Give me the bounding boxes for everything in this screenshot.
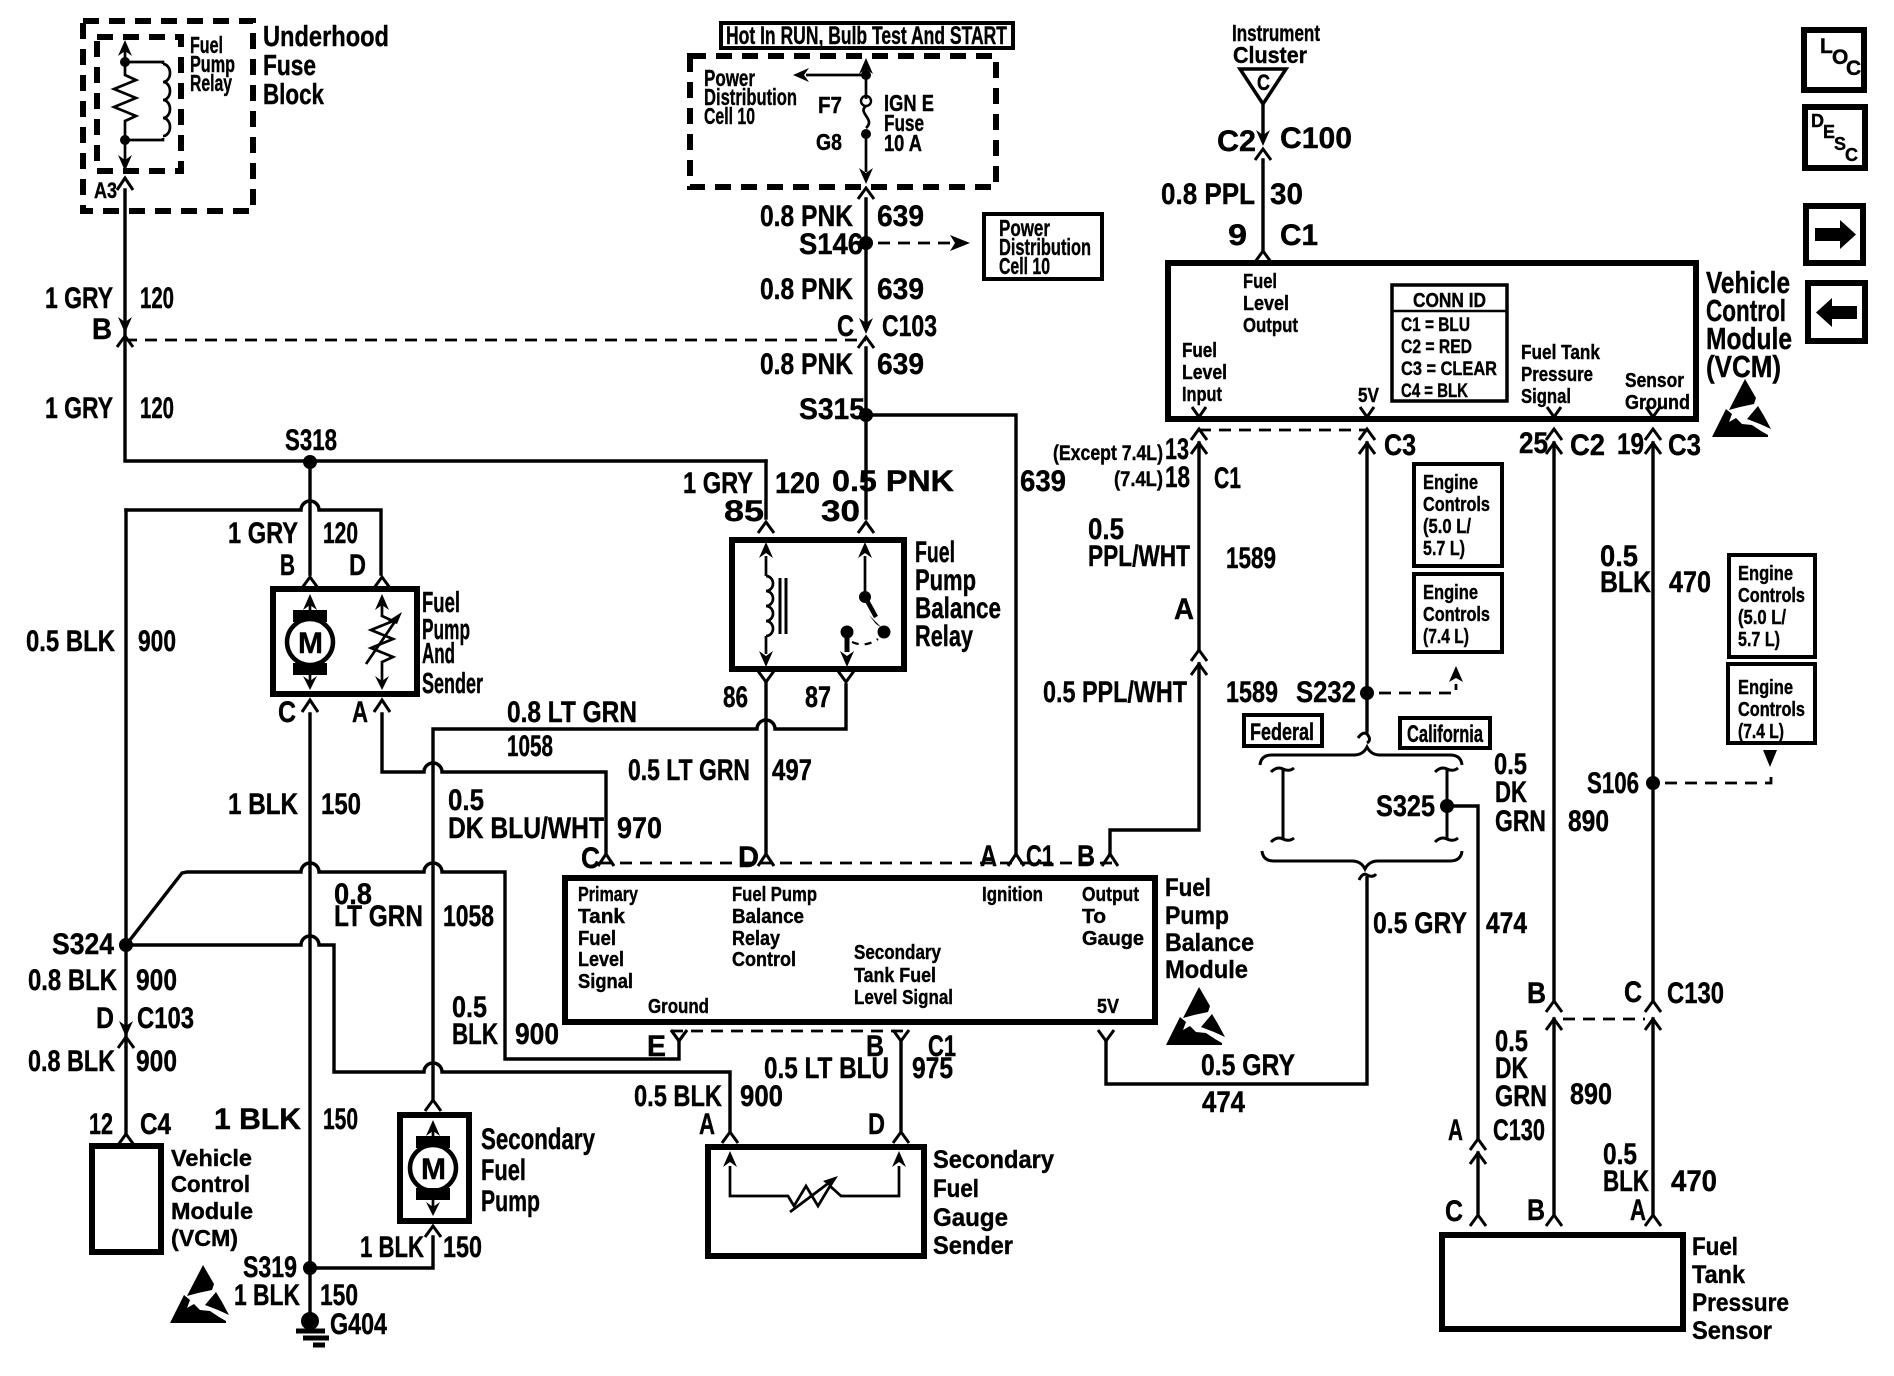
svg-text:474: 474: [1486, 907, 1527, 940]
svg-text:0.8 LT GRN: 0.8 LT GRN: [507, 696, 637, 729]
svg-text:M: M: [298, 627, 323, 660]
module bottom connector C1 dashed line: [671, 1030, 909, 1033]
svg-text:C3 = CLEAR: C3 = CLEAR: [1401, 359, 1497, 380]
wire module B to secondary sender D (0.5 LT BLU 975): [899, 1041, 902, 1130]
svg-text:Underhood: Underhood: [263, 21, 389, 53]
svg-text:Fuel: Fuel: [1692, 1233, 1738, 1261]
VCM pin chevrons below box (25/C2): [1546, 429, 1562, 454]
wire S318 down to fuel pump B pin: [308, 462, 311, 574]
svg-text:Cluster: Cluster: [1233, 42, 1307, 68]
svg-text:Fuel: Fuel: [1165, 874, 1211, 902]
svg-text:0.5 GRY: 0.5 GRY: [1373, 907, 1467, 940]
VCM pin chevrons below box (19/C3): [1645, 429, 1661, 454]
svg-text:1 BLK: 1 BLK: [214, 1103, 301, 1136]
svg-text:5.7 L): 5.7 L): [1423, 538, 1465, 560]
VCM bottom connector dashed line: [1199, 429, 1367, 432]
wire to VCM: [124, 1048, 127, 1133]
svg-text:C2 = RED: C2 = RED: [1401, 337, 1472, 358]
node S319: [303, 1261, 317, 1275]
svg-text:Engine: Engine: [1738, 677, 1793, 699]
svg-text:C: C: [1624, 976, 1642, 1009]
svg-text:Sender: Sender: [933, 1232, 1013, 1260]
svg-text:A: A: [699, 1108, 715, 1141]
instrument cluster triangle connector: [1240, 69, 1286, 104]
node S318: [303, 455, 317, 469]
fuel tank pressure sensor box: [1442, 1235, 1683, 1329]
svg-text:G404: G404: [330, 1308, 387, 1341]
vehicle control module box (bottom-left): [92, 1146, 161, 1252]
svg-text:150: 150: [321, 788, 361, 821]
VCM entry chevron: [1255, 251, 1271, 262]
svg-text:To: To: [1082, 906, 1106, 928]
wire relay bottom with down arrow: [124, 140, 127, 160]
svg-text:C103: C103: [137, 1002, 194, 1035]
svg-text:87: 87: [805, 681, 831, 714]
svg-text:Cell 10: Cell 10: [999, 253, 1050, 279]
svg-text:D: D: [96, 1002, 114, 1035]
svg-text:900: 900: [138, 625, 176, 658]
svg-text:1589: 1589: [1226, 676, 1278, 709]
svg-text:Gauge: Gauge: [1082, 928, 1144, 950]
module pin A chevron: [1008, 854, 1024, 866]
VCM pin chevrons below box (C3): [1359, 429, 1375, 454]
svg-text:975: 975: [912, 1052, 953, 1085]
svg-text:Control: Control: [171, 1171, 250, 1197]
sender internal resistor with arrow: [730, 1166, 899, 1206]
svg-text:Fuel Pump: Fuel Pump: [732, 884, 817, 906]
svg-text:Tank: Tank: [578, 906, 626, 928]
svg-text:C1 = BLU: C1 = BLU: [1401, 315, 1470, 336]
svg-text:639: 639: [877, 348, 924, 381]
connector chevron below fuse block: [858, 188, 874, 199]
wire VCM C3 down to S232: [1365, 443, 1368, 730]
svg-text:1 BLK: 1 BLK: [360, 1231, 424, 1264]
node fuse top: [861, 70, 871, 80]
svg-text:Level: Level: [1182, 362, 1227, 384]
sender variable resistor: [371, 604, 393, 682]
svg-text:Relay: Relay: [915, 620, 973, 653]
svg-text:890: 890: [1570, 1078, 1612, 1111]
svg-text:1 BLK: 1 BLK: [228, 788, 298, 821]
svg-text:0.5 BLK: 0.5 BLK: [26, 625, 115, 658]
dashed connector line C103 (left): [125, 339, 866, 342]
svg-text:DK BLU/WHT: DK BLU/WHT: [448, 812, 604, 845]
svg-text:C: C: [1846, 57, 1861, 80]
left arrow branch inside fuse block: [806, 74, 866, 77]
svg-text:C: C: [1845, 145, 1858, 165]
wire A3 down to S318 corner: [125, 190, 766, 461]
connector B arrow and chevron: [118, 317, 132, 333]
wire relay 87 to secondary pump (0.8 LT GRN 1058) hop at x766: [433, 685, 846, 1098]
svg-text:86: 86: [723, 681, 748, 714]
svg-text:Primary: Primary: [578, 884, 639, 906]
svg-text:470: 470: [1669, 566, 1711, 599]
wire VCM C3-19 down (0.5 BLK 470): [1651, 443, 1654, 1001]
svg-text:Balance: Balance: [732, 906, 804, 928]
svg-text:Secondary: Secondary: [481, 1123, 595, 1156]
underhood fuse block (center) dashed outline: [690, 56, 996, 187]
svg-text:Level Signal: Level Signal: [854, 987, 953, 1009]
svg-text:Pump: Pump: [481, 1185, 540, 1218]
svg-text:120: 120: [140, 282, 174, 315]
sensor pin B chevron: [1546, 1215, 1562, 1226]
VCM internal pin ticks: [1192, 407, 1660, 417]
module pin B bottom chevron: [893, 1030, 909, 1041]
svg-text:0.5 GRY: 0.5 GRY: [1201, 1049, 1295, 1082]
svg-text:Fuel: Fuel: [578, 928, 616, 950]
svg-text:(5.0 L/: (5.0 L/: [1423, 516, 1471, 538]
svg-text:890: 890: [1568, 805, 1609, 838]
svg-text:0.8 PNK: 0.8 PNK: [760, 273, 853, 306]
svg-text:Module: Module: [1165, 956, 1248, 984]
svg-text:Vehicle: Vehicle: [171, 1145, 252, 1171]
svg-text:PPL/WHT: PPL/WHT: [1088, 540, 1190, 573]
svg-text:1 GRY: 1 GRY: [45, 392, 113, 425]
svg-text:12: 12: [89, 1108, 113, 1141]
svg-text:B: B: [280, 549, 295, 582]
svg-text:(VCM): (VCM): [171, 1225, 238, 1251]
wire S325 to connector C130 pin A (0.5 GRY 474): [1447, 806, 1478, 1139]
svg-text:Controls: Controls: [1423, 604, 1490, 626]
wire pin A to module pin C (0.5 DK BLU/WHT 970) with hop at x433: [382, 714, 606, 852]
federal jumper I-bar: [1271, 768, 1294, 842]
svg-text:S324: S324: [52, 928, 114, 961]
svg-text:Relay: Relay: [190, 70, 232, 96]
svg-text:Balance: Balance: [1165, 929, 1254, 957]
node S106: [1646, 776, 1660, 790]
svg-text:Sender: Sender: [422, 668, 483, 700]
svg-text:85: 85: [724, 495, 764, 528]
fuel pump balance module box: [565, 878, 1155, 1022]
svg-text:0.8 BLK: 0.8 BLK: [28, 1045, 115, 1078]
wire S324 down to VCM pin 12 C4: [124, 945, 127, 1046]
node S315: [859, 408, 873, 422]
riser hook below underbrace: [1359, 874, 1376, 880]
svg-text:Pressure: Pressure: [1692, 1289, 1789, 1317]
svg-text:B: B: [92, 313, 112, 346]
S232 wire end hook: [1358, 730, 1370, 743]
svg-text:1058: 1058: [507, 730, 553, 763]
svg-text:470: 470: [1671, 1165, 1717, 1198]
underbrace (bottom): [1262, 851, 1462, 869]
relay coil branch: [125, 62, 170, 140]
pin A chevron: [374, 700, 390, 712]
sensor pin C chevron: [1470, 1215, 1486, 1226]
wire 0.5 BLK 900 down to S324: [124, 510, 127, 945]
svg-text:C1: C1: [1214, 462, 1241, 495]
fuel pump relay top feed wire with up arrow: [124, 48, 127, 62]
relay pin 87 chevron: [838, 671, 854, 682]
svg-text:Signal: Signal: [1521, 386, 1571, 408]
connector C100 arrow and chevron: [1256, 130, 1270, 146]
label Federal box: [1244, 715, 1322, 746]
module top connector C1 dashed line: [600, 862, 1116, 865]
svg-text:19: 19: [1617, 428, 1644, 461]
ESD symbol (bottom-left): [170, 1265, 229, 1323]
svg-text:M: M: [421, 1153, 446, 1186]
svg-text:Controls: Controls: [1423, 494, 1490, 516]
wire to VCM top: [1261, 160, 1264, 250]
ground G404 symbol: [301, 1312, 319, 1330]
svg-text:A: A: [980, 840, 997, 873]
svg-text:Cell 10: Cell 10: [704, 103, 755, 129]
svg-text:A: A: [1630, 1194, 1646, 1227]
wire S319 to G404: [308, 1268, 311, 1315]
svg-text:639: 639: [877, 273, 924, 306]
svg-text:C2: C2: [1217, 125, 1256, 158]
svg-text:Signal: Signal: [578, 971, 633, 993]
dashed arrow S232 to engine controls 7.4L: [1379, 684, 1456, 693]
svg-text:120: 120: [323, 517, 358, 550]
svg-text:970: 970: [617, 812, 662, 845]
svg-text:474: 474: [1202, 1086, 1245, 1119]
pin B chevron: [302, 577, 318, 588]
node S232: [1360, 686, 1374, 700]
svg-text:C: C: [581, 842, 600, 875]
svg-text:California: California: [1407, 721, 1483, 748]
svg-text:(5.0 L/: (5.0 L/: [1738, 607, 1786, 629]
inline connector A chevrons: [1191, 650, 1207, 675]
motor M symbol: [309, 600, 312, 622]
svg-text:B: B: [1527, 1194, 1545, 1227]
svg-text:Output: Output: [1243, 315, 1298, 337]
svg-text:Secondary: Secondary: [933, 1146, 1054, 1174]
svg-text:C103: C103: [882, 310, 937, 343]
wire C1-13/18 down (0.5 PPL/WHT 1589): [1197, 443, 1200, 649]
fuel pump relay inner dashed box: [97, 37, 181, 171]
secondary fuel pump box: [400, 1115, 469, 1221]
svg-text:5V: 5V: [1358, 385, 1380, 407]
svg-text:150: 150: [443, 1231, 482, 1264]
svg-text:C2: C2: [1570, 429, 1605, 462]
node S324: [119, 938, 133, 952]
right arrow box: [1806, 206, 1863, 263]
svg-text:A: A: [352, 696, 368, 729]
svg-text:(VCM): (VCM): [1706, 349, 1781, 384]
svg-text:1 GRY: 1 GRY: [45, 282, 113, 315]
svg-text:0.8 PNK: 0.8 PNK: [760, 348, 853, 381]
svg-text:25: 25: [1519, 427, 1548, 460]
svg-text:Controls: Controls: [1738, 585, 1805, 607]
LOC box: [1804, 30, 1864, 90]
svg-text:Sensor: Sensor: [1625, 370, 1684, 392]
svg-text:497: 497: [772, 754, 812, 787]
hot in run bulb test and start box: [721, 23, 1013, 48]
svg-text:S146: S146: [799, 228, 863, 261]
connector C103 arrow and chevron (center): [859, 318, 873, 334]
wire S315 branch to module pin A (0.5 PNK 639): [866, 415, 1016, 852]
engine controls (7.4L) box mid: [1414, 574, 1502, 652]
DESC box: [1805, 107, 1865, 168]
svg-text:Engine: Engine: [1738, 563, 1793, 585]
connector C130 chevrons pin C: [1645, 1001, 1661, 1030]
wire to sensor C: [1476, 1153, 1479, 1213]
svg-text:Ground: Ground: [648, 996, 709, 1018]
california jumper I-bar: [1435, 768, 1458, 842]
wire relay 86 to module pin D (0.5 LT GRN 497): [764, 682, 767, 852]
svg-text:Level: Level: [578, 949, 624, 971]
wire fuse feed with up arrow: [865, 68, 868, 99]
svg-text:C: C: [278, 696, 296, 729]
svg-text:0.8 PPL: 0.8 PPL: [1161, 178, 1255, 211]
svg-text:S232: S232: [1296, 676, 1356, 709]
svg-text:B: B: [1527, 977, 1546, 1010]
svg-text:Fuel: Fuel: [933, 1175, 979, 1203]
svg-text:0.8 BLK: 0.8 BLK: [28, 964, 117, 997]
ESD symbol (module): [1166, 987, 1225, 1045]
svg-text:C100: C100: [1280, 122, 1352, 155]
module pin 5V chevron: [1098, 1030, 1114, 1041]
secondary pump bottom chevron: [425, 1226, 441, 1237]
svg-text:GRN: GRN: [1495, 1080, 1547, 1113]
svg-text:0.5 LT BLU: 0.5 LT BLU: [764, 1052, 889, 1085]
svg-text:Controls: Controls: [1738, 699, 1805, 721]
svg-text:C3: C3: [1384, 429, 1416, 462]
svg-text:And: And: [422, 638, 455, 670]
svg-text:F7: F7: [818, 92, 842, 118]
node S146: [859, 236, 873, 250]
wire C130-B to sensor B (0.5 DK GRN 890): [1552, 1019, 1555, 1213]
engine controls (5.0L/5.7L) box mid: [1414, 464, 1502, 566]
engine controls (5.0L/5.7L) box right: [1729, 555, 1815, 657]
svg-text:G8: G8: [816, 129, 842, 155]
svg-text:C: C: [837, 310, 854, 343]
relay pin 85 chevron: [758, 522, 774, 533]
svg-text:30: 30: [821, 495, 860, 528]
svg-text:C4: C4: [140, 1108, 171, 1141]
node: relay internal bottom junction: [120, 135, 130, 145]
svg-text:1 BLK: 1 BLK: [234, 1279, 300, 1312]
svg-text:A: A: [1448, 1114, 1463, 1147]
power distribution cell 10 box: [984, 214, 1102, 279]
svg-text:Output: Output: [1082, 884, 1139, 906]
secondary pump top chevron: [425, 1100, 441, 1111]
wire C pin down to S319 (1 BLK 150): [308, 714, 311, 1268]
svg-text:S315: S315: [799, 393, 865, 426]
secondary fuel pump wire to S319: [310, 1237, 433, 1268]
svg-text:900: 900: [515, 1018, 559, 1051]
dashed S106 to engine controls arrow: [1665, 771, 1771, 783]
svg-text:C130: C130: [1667, 977, 1724, 1010]
connector A3 chevron: [117, 178, 133, 190]
svg-text:Tank: Tank: [1692, 1261, 1745, 1289]
left arrow box: [1808, 283, 1865, 341]
svg-text:Ignition: Ignition: [982, 884, 1043, 906]
svg-text:(Except 7.4L): (Except 7.4L): [1053, 442, 1163, 465]
svg-text:C4 = BLK: C4 = BLK: [1401, 381, 1468, 402]
svg-text:C: C: [1257, 70, 1270, 95]
svg-text:9: 9: [1228, 219, 1247, 252]
svg-text:Secondary: Secondary: [854, 942, 942, 964]
svg-text:10 A: 10 A: [884, 130, 922, 156]
svg-text:1 GRY: 1 GRY: [228, 517, 298, 550]
svg-text:18: 18: [1165, 461, 1190, 494]
svg-text:Block: Block: [263, 79, 325, 111]
svg-text:(7.4L): (7.4L): [1114, 468, 1163, 491]
svg-text:120: 120: [775, 467, 820, 500]
svg-text:Gauge: Gauge: [933, 1204, 1008, 1232]
svg-text:D: D: [868, 1108, 885, 1141]
svg-text:5.7 L): 5.7 L): [1738, 629, 1780, 651]
svg-text:BLK: BLK: [452, 1018, 498, 1051]
svg-text:Tank Fuel: Tank Fuel: [854, 965, 936, 987]
node: relay internal top junction: [120, 57, 130, 67]
engine controls (7.4L) box right: [1728, 664, 1815, 743]
svg-text:Fuel: Fuel: [1243, 271, 1277, 293]
svg-text:C1: C1: [1026, 840, 1054, 873]
relay pin 30 chevron: [858, 522, 874, 533]
svg-text:0.5 LT GRN: 0.5 LT GRN: [628, 754, 750, 787]
svg-text:Federal: Federal: [1250, 719, 1314, 746]
S324 ground net: horizontal to sender pin A with hops: [126, 936, 730, 1130]
relay pin 86 chevron: [758, 671, 774, 682]
svg-text:120: 120: [140, 392, 174, 425]
svg-text:150: 150: [323, 1103, 358, 1136]
dashed connector C130 line: [1563, 1018, 1645, 1021]
fuse F7 IGN E symbol: [861, 96, 871, 106]
underhood fuse block (top-left) dashed outline: [83, 21, 253, 211]
module pin E chevron (pointing up): [671, 1030, 687, 1041]
S324 diagonal and 0.5 BLK 900 run to module pin E: [126, 863, 679, 1059]
svg-text:D: D: [738, 841, 759, 874]
svg-text:C130: C130: [1493, 1114, 1545, 1147]
connector C130 chevrons pin B: [1546, 1001, 1562, 1030]
wire branch to pin D with hop over B wire: [126, 501, 381, 574]
svg-text:1589: 1589: [1226, 542, 1276, 575]
secondary pump motor symbol: [432, 1126, 435, 1140]
overbrace (top): [1260, 747, 1462, 765]
svg-text:A3: A3: [94, 178, 117, 203]
wire to module pin B: [1110, 664, 1199, 853]
svg-text:(7.4 L): (7.4 L): [1423, 626, 1469, 648]
svg-text:5V: 5V: [1097, 996, 1120, 1018]
svg-text:Control: Control: [732, 949, 796, 971]
svg-text:900: 900: [136, 1045, 177, 1078]
svg-text:Fuel: Fuel: [481, 1154, 526, 1187]
svg-text:S318: S318: [285, 424, 337, 457]
vehicle control module box (top-right): [1168, 263, 1696, 419]
svg-text:Pressure: Pressure: [1521, 364, 1593, 386]
svg-text:D: D: [349, 549, 366, 582]
svg-text:900: 900: [136, 964, 177, 997]
connector C4 chevron: [118, 1134, 134, 1145]
svg-text:Module: Module: [171, 1198, 253, 1224]
svg-text:Input: Input: [1182, 384, 1222, 406]
svg-text:0.5 PPL/WHT: 0.5 PPL/WHT: [1043, 676, 1187, 709]
svg-text:Relay: Relay: [732, 928, 781, 950]
svg-text:639: 639: [877, 200, 924, 233]
svg-text:30: 30: [1270, 178, 1303, 211]
wire VCM C2-25 down (0.5 DK GRN 890): [1552, 443, 1555, 1001]
wire to S315 and relay pin 30: [864, 348, 867, 518]
arrow from engine controls 7.4L down: [1763, 750, 1777, 767]
relay switch symbol: [864, 556, 867, 592]
module pin D chevron: [758, 854, 774, 866]
wire S318 line down to pin 85: [764, 461, 767, 518]
wire triangle to C100 connector: [1261, 104, 1264, 140]
CONN ID table: [1392, 285, 1507, 401]
sender pin D chevron: [893, 1132, 909, 1143]
svg-text:Pump: Pump: [1165, 902, 1229, 930]
svg-text:Engine: Engine: [1423, 472, 1478, 494]
dashed arrow S146 to power distribution box: [878, 242, 952, 245]
svg-text:CONN ID: CONN ID: [1413, 290, 1486, 312]
secondary fuel gauge sender box: [708, 1147, 924, 1256]
resistor (relay coil suppression resistor): [114, 62, 136, 140]
wire down to S146: [864, 199, 867, 328]
svg-text:Hot In RUN, Bulb Test And STAR: Hot In RUN, Bulb Test And START: [726, 22, 1007, 50]
svg-text:LT GRN: LT GRN: [334, 900, 423, 933]
